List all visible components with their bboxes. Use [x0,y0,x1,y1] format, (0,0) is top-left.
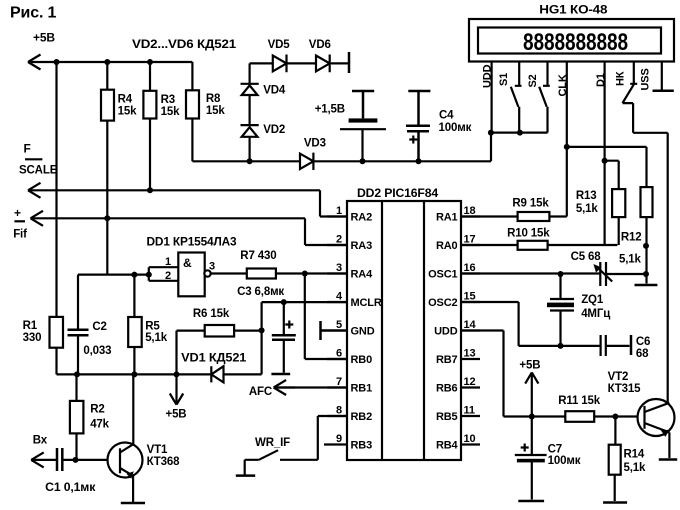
wire R1 column from +5V rail down to bus [55,62,57,374]
svg-text:R10 15k: R10 15k [507,227,550,239]
ground bar C3 [271,373,290,376]
wire C1 to VT1 base [64,459,121,461]
wire VD4-VD2 branch vertical [249,63,251,161]
wire OSC1 pin16 net [461,272,646,275]
wire RA1 pin18 to R9 [461,215,567,217]
svg-text:R2: R2 [90,404,104,416]
svg-text:C5 68: C5 68 [571,251,602,263]
ground bar R12-C5 node [635,284,658,287]
junction UDD row [488,130,494,136]
svg-text:RA2: RA2 [351,212,373,224]
wire F net to RA2 pin1 [28,190,347,216]
diode VD5 [273,55,287,73]
svg-text:RB3: RB3 [351,440,373,452]
junction S1 bottom [517,130,523,136]
wire R12 bottom lead to ground [645,217,647,283]
wire R11 leads [532,415,616,417]
wire jog D1 to R13 top [605,161,619,189]
svg-text:VD6: VD6 [309,39,331,51]
svg-text:RB4: RB4 [436,440,459,452]
resistor R10 [518,241,548,250]
svg-text:8888888888: 8888888888 [523,29,628,56]
diode VD2 [241,125,259,137]
svg-text:Рис. 1: Рис. 1 [10,5,57,22]
wire OSC2 pin15 net [461,302,600,346]
svg-text:C2: C2 [92,321,106,333]
svg-text:4: 4 [336,291,343,303]
svg-text:47k: 47k [90,419,109,431]
node AFC arrow [274,380,295,395]
ground bar USS [653,89,674,92]
svg-text:DD1 КР1554ЛА3: DD1 КР1554ЛА3 [147,237,237,249]
ground symbol GND pin5 [321,321,348,340]
svg-text:RB0: RB0 [351,354,373,366]
junction CLK branch [564,144,570,150]
svg-text:3: 3 [336,262,342,274]
svg-text:R5: R5 [145,320,160,332]
svg-text:9: 9 [336,433,342,445]
junction C3 tap on MCLR net [281,299,287,305]
wire UDD pin14 net [461,331,532,417]
svg-text:2: 2 [165,270,171,282]
label DD2 right pin names [428,212,458,452]
junction crystal top [558,271,564,277]
junction R6 right [259,327,265,333]
svg-text:VD3: VD3 [304,138,326,150]
junction D1 to R13 jog [602,158,608,164]
switch HK display pin [623,62,668,403]
svg-text:UDD: UDD [434,326,458,338]
switch S1 [511,62,522,133]
wire R2 leads [75,374,77,460]
resistor R9 [518,212,550,221]
svg-text:R13: R13 [576,190,597,202]
IC DD2 PIC16F84 box [347,201,461,460]
junction R3 on +5V rail [147,59,153,65]
resistor R7 [247,269,276,279]
svg-text:D1: D1 [595,73,607,87]
resistor R6 [205,325,234,337]
junction +5V C7 R11 node [529,414,535,420]
svg-text:VD1 КД521: VD1 КД521 [181,352,247,364]
svg-text:15k: 15k [118,106,137,118]
node F-SCALE input arrow [28,183,41,198]
svg-text:RB7: RB7 [436,354,458,366]
capacitor C5 trimmer [593,262,612,286]
svg-text:GND: GND [351,326,375,338]
diode VD1 [211,366,223,382]
wire RA4 to RB0 pin6 [305,274,347,360]
svg-text:S2: S2 [527,74,539,87]
svg-text:VD2...VD6 КД521: VD2...VD6 КД521 [132,39,237,51]
junction R4 on +5V rail [104,59,110,65]
node Fif input [13,206,27,241]
svg-text:OSC2: OSC2 [428,297,457,309]
transistor VT2 [638,399,675,437]
node F SCALE input [19,142,58,177]
svg-text:100мк: 100мк [548,455,581,467]
wire MCLR net [262,302,347,330]
svg-text:100мк: 100мк [439,122,472,134]
wire display pin D1 down [603,62,605,246]
wire RA0 pin17 to R10 [461,244,617,246]
junction R3 on F net [147,187,153,193]
svg-text:R14: R14 [624,448,645,460]
ground bar VT1 emitter [121,502,145,505]
svg-text:Вх: Вх [33,435,48,447]
wire +5V rail [28,61,192,63]
ground bar WR_IF [236,474,255,477]
junction C4 on bus [416,158,422,164]
svg-text:15k: 15k [206,105,225,117]
gate DD1 box [178,253,210,297]
junction battery on bus [360,158,366,164]
ground bar C7 [518,500,544,503]
svg-text:15k: 15k [161,106,180,118]
svg-text:11: 11 [464,405,475,417]
junction R5 top [131,272,137,278]
svg-text:WR_IF: WR_IF [255,437,290,449]
wire R14 leads [614,417,617,502]
wire C7 leads [531,417,533,500]
svg-text:C1 0,1мк: C1 0,1мк [45,482,95,494]
svg-text:CLK: CLK [557,74,569,96]
capacitor C4 terminal tick [408,91,430,125]
wire ZQ1 leads [559,274,561,346]
transistor VT1 [108,443,143,479]
wire VT1 emitter to ground [132,476,134,503]
junction RA4-RB0 tie [302,271,308,277]
svg-text:5,1k: 5,1k [619,253,642,265]
svg-text:VD2: VD2 [263,124,285,136]
svg-text:2: 2 [336,234,342,246]
resistor R1 [50,317,64,348]
wire DD1 input net [78,267,178,281]
wire display pin UDD [491,62,493,133]
junction +5V feed on bus [174,371,180,377]
resistor R11 [565,411,594,422]
wire R13 bottom lead [618,217,620,245]
svg-text:DD2 PIC16F84: DD2 PIC16F84 [357,188,439,200]
svg-text:КТ368: КТ368 [147,456,181,468]
svg-text:68: 68 [636,348,649,360]
svg-text:RB5: RB5 [436,411,458,423]
IC DD2 left pin stubs [324,217,347,445]
wire C2 top lead [77,275,79,329]
svg-text:R7 430: R7 430 [240,250,276,262]
svg-text:ZQ1: ZQ1 [581,294,604,306]
wire display pin CLK down to R9 [566,62,568,217]
wire main bus y=374 [57,330,262,374]
svg-text:0,033: 0,033 [83,345,111,357]
svg-text:R3: R3 [161,94,175,106]
svg-text:RB6: RB6 [436,383,458,395]
capacitor C4 plus sign [409,136,417,144]
resistor R5 [128,317,142,347]
svg-text:VD4: VD4 [263,85,286,97]
wire VT2 base lead [615,415,644,417]
junction R11-R14-VT2 base [612,414,618,420]
wire VD5-VD6 top branch [250,62,349,64]
capacitor C3 plates [272,335,296,339]
svg-text:C3 6,8мк: C3 6,8мк [237,286,284,298]
capacitor C2 plates [68,330,89,336]
svg-text:R6 15k: R6 15k [193,308,230,320]
capacitor C3 plus sign [285,321,293,329]
wire VT2 emitter to ground [668,432,670,458]
node Fif input arrow [31,211,44,226]
svg-text:R4: R4 [118,94,133,106]
wire Fif net to RA3 pin2 [31,218,348,245]
svg-text:+5В: +5В [519,359,540,371]
capacitor C1 plates [57,448,62,471]
svg-text:15: 15 [464,291,476,303]
wire VT1 collector up to bus [132,374,134,444]
ground bar R14 [603,501,627,504]
wire +1.5V bus y=161 [192,133,491,162]
svg-text:R12: R12 [621,232,642,244]
wire Fif branch down to gate input net [106,218,108,274]
svg-text:R1: R1 [23,320,38,332]
label DD2 left pin numbers [336,205,343,445]
svg-text:VD5: VD5 [268,39,291,51]
node +5V input arrow top-left [28,55,41,70]
label DD2 right pin numbers [464,205,477,445]
svg-text:13: 13 [464,348,476,360]
svg-text:C7: C7 [548,443,562,455]
capacitor C7 plus sign [521,444,529,452]
svg-text:AFC: AFC [249,386,272,398]
wire R4 leads [106,62,108,218]
svg-text:C4: C4 [439,110,454,122]
junction R4 on Fif net [104,215,110,221]
resistor R3 [143,91,156,119]
svg-text:18: 18 [464,205,476,217]
diode VD4 [241,84,259,95]
svg-text:MCLR: MCLR [351,297,382,309]
svg-text:5,1k: 5,1k [145,332,168,344]
node terminal tick after C6 [630,335,633,355]
svg-text:SCALE: SCALE [19,165,58,177]
junction crystal bottom [558,343,564,349]
svg-text:VT2: VT2 [608,371,629,383]
junction R12 mid [643,243,649,249]
svg-text:6: 6 [336,348,342,360]
wire R3 leads [149,62,151,190]
svg-text:5,1k: 5,1k [624,462,647,474]
svg-text:OSC1: OSC1 [428,269,457,281]
wire AFC to RB1 pin7 [274,386,347,388]
svg-text:R11 15k: R11 15k [558,395,601,407]
capacitor C4 plates [406,126,430,162]
svg-text:RA3: RA3 [351,240,373,252]
node Vx input arrow [31,452,44,467]
wire C2 bottom lead [77,337,79,375]
IC DD2 right pin stubs [461,217,480,445]
svg-text:RB2: RB2 [351,411,373,423]
svg-text:+5В: +5В [33,31,55,45]
capacitor C7 plates [515,455,547,462]
capacitor C6 plates [601,335,606,356]
svg-text:UDD: UDD [482,64,494,88]
junction DD1 pin tie [146,272,152,278]
svg-text:+1,5В: +1,5В [315,104,345,116]
node +5V up arrow bottom [525,372,538,416]
svg-text:НК: НК [614,71,626,86]
resistor R2 [70,401,84,434]
svg-text:1: 1 [336,205,342,217]
svg-text:10: 10 [464,433,476,445]
svg-text:+: + [14,206,21,220]
diode VD3 [300,153,313,170]
svg-text:VT1: VT1 [147,444,168,456]
svg-text:17: 17 [464,234,476,246]
diode VD6 [316,55,330,73]
svg-text:5: 5 [336,319,342,331]
wire CLK branch to R12 top [567,147,647,187]
label DD2 left pin names [351,212,382,452]
svg-text:RA1: RA1 [436,212,458,224]
svg-text:F: F [24,142,31,156]
junction R12-C5 node [643,271,649,277]
svg-text:14: 14 [464,319,477,331]
svg-text:Fif: Fif [13,229,27,241]
svg-text:1: 1 [165,256,171,268]
ground bar VT2 emitter [659,458,677,461]
svg-text:12: 12 [464,376,476,388]
wire C3 leads [283,302,285,373]
svg-text:8: 8 [336,405,342,417]
display HG1 inner window [478,28,661,54]
display HG1 outer box [469,19,674,62]
svg-text:&: & [183,256,192,270]
node terminal tick after VD6 [348,52,351,73]
crystal ZQ1 [547,299,574,311]
node +5V down arrow near VD1 [170,374,183,404]
junction VD2 chain on bus [247,158,253,164]
svg-text:C6: C6 [636,336,650,348]
resistor R8 [186,90,199,118]
battery GB 1.5V plates [340,118,386,161]
resistor R4 [101,90,114,121]
battery GB 1.5V terminal tick [352,91,374,118]
wire R6 leads [177,331,262,375]
svg-text:USS: USS [639,68,651,90]
resistor R13 [612,189,625,217]
svg-text:RA0: RA0 [436,240,458,252]
wire DD1 output to R7 to RA4 pin3 [210,272,347,274]
resistor R14 [609,445,621,475]
junction R1 on +5V rail [54,59,60,65]
wire display pin USS [661,62,663,91]
junction R5-VT1 collector on bus [131,371,137,377]
switch WR_IF [245,416,347,475]
svg-text:КТ315: КТ315 [608,383,642,395]
resistor R12 [641,187,653,217]
wire S1-S2 bottom row [491,132,548,134]
svg-text:S1: S1 [498,73,510,86]
wire R8 leads and corner to diode bus [191,62,193,161]
wire R5 leads [133,275,135,375]
svg-text:R9 15k: R9 15k [512,197,549,209]
svg-text:HG1 КО-48: HG1 КО-48 [539,4,608,16]
junction C1-R2 [73,457,79,463]
wire C6 right lead [607,345,630,347]
svg-text:16: 16 [464,262,476,274]
svg-text:+5В: +5В [166,409,187,421]
svg-text:7: 7 [336,376,342,388]
svg-text:330: 330 [23,332,42,344]
svg-text:R8: R8 [206,93,221,105]
svg-text:RA4: RA4 [351,269,374,281]
wire Vx input to C1 [31,459,56,461]
svg-text:RB1: RB1 [351,383,373,395]
svg-text:4МГц: 4МГц [581,308,610,320]
junction C2-R2 column on bus [74,371,80,377]
switch S2 [539,62,550,133]
svg-text:3: 3 [209,261,215,273]
svg-text:5,1k: 5,1k [576,203,599,215]
